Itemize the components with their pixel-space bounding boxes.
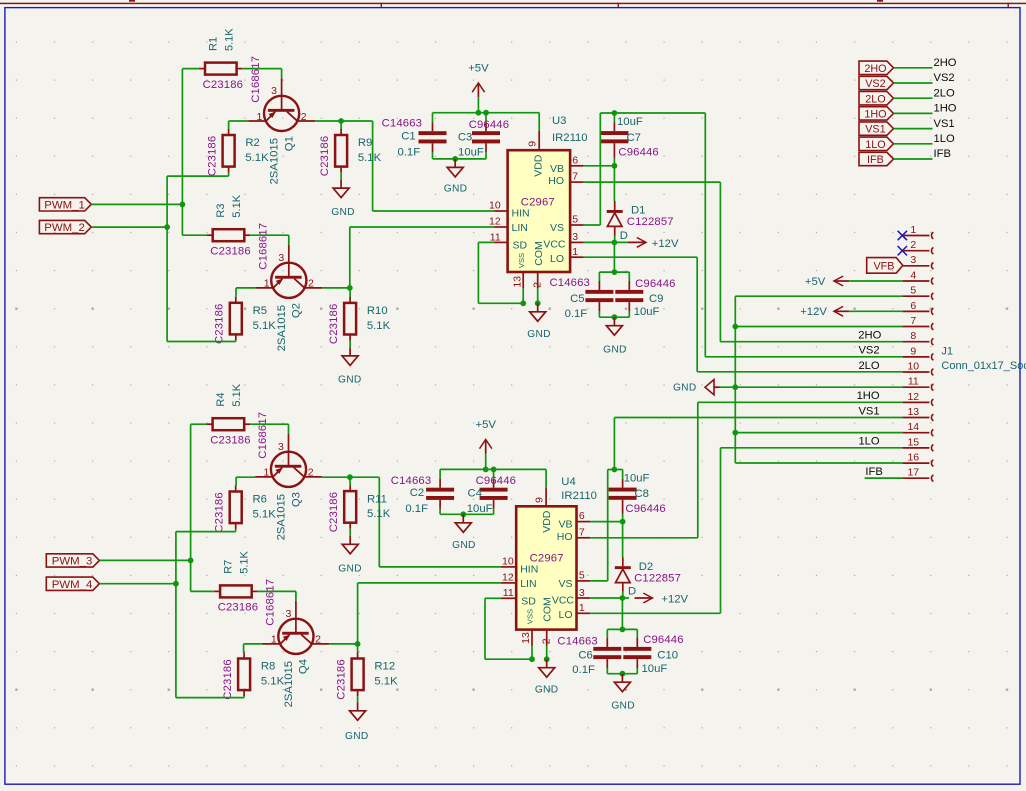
svg-text:R11: R11 xyxy=(367,493,387,505)
capacitor C7 xyxy=(600,131,628,143)
wire xyxy=(167,341,236,343)
svg-text:10uF: 10uF xyxy=(642,663,668,675)
ground xyxy=(527,303,551,340)
pin Q2 base xyxy=(288,245,290,277)
svg-text:1: 1 xyxy=(257,111,263,123)
svg-text:HO: HO xyxy=(548,175,564,187)
resistor R12 xyxy=(352,653,364,697)
svg-text:3: 3 xyxy=(285,608,291,620)
ground xyxy=(338,536,362,575)
svg-text:1LO: 1LO xyxy=(858,436,879,448)
resistor R3 xyxy=(207,229,251,241)
svg-text:D1: D1 xyxy=(631,205,645,217)
svg-text:2: 2 xyxy=(315,634,321,646)
svg-text:C6: C6 xyxy=(578,649,592,661)
wire xyxy=(628,311,630,317)
wire xyxy=(622,514,624,522)
svg-text:VS2: VS2 xyxy=(858,345,879,357)
capacitor C4 xyxy=(480,488,508,500)
svg-text:3: 3 xyxy=(271,85,277,97)
svg-text:COM: COM xyxy=(533,241,545,266)
wire xyxy=(590,580,608,582)
wire xyxy=(545,469,547,487)
junction xyxy=(347,474,353,480)
ground xyxy=(444,159,468,195)
svg-text:0.1F: 0.1F xyxy=(572,664,595,676)
wire C5C9 bottom xyxy=(599,316,629,318)
wire xyxy=(281,69,283,79)
svg-text:Q3: Q3 xyxy=(290,492,302,507)
wire xyxy=(622,470,624,479)
svg-text:1: 1 xyxy=(263,467,269,479)
pin C4 bottom xyxy=(493,500,495,509)
wire xyxy=(705,356,902,358)
svg-text:C96446: C96446 xyxy=(643,634,683,646)
wire xyxy=(182,234,206,236)
svg-text:IFB: IFB xyxy=(867,154,884,166)
svg-text:D2: D2 xyxy=(639,561,653,573)
wire xyxy=(485,597,501,599)
svg-text:11: 11 xyxy=(490,231,501,243)
svg-text:C7: C7 xyxy=(627,132,641,144)
svg-text:PWM_1: PWM_1 xyxy=(44,199,85,211)
power +12V xyxy=(635,593,689,606)
svg-text:5.1K: 5.1K xyxy=(374,676,398,688)
label R10 xyxy=(367,305,391,332)
wire xyxy=(167,175,229,177)
wire xyxy=(440,513,494,515)
wire xyxy=(295,591,297,601)
junction xyxy=(180,202,186,208)
hierarchical label VS2 xyxy=(859,76,894,90)
svg-text:1HO: 1HO xyxy=(934,103,957,115)
svg-text:5.1K: 5.1K xyxy=(223,28,235,51)
svg-text:2SA1015: 2SA1015 xyxy=(276,305,288,351)
svg-text:PWM_4: PWM_4 xyxy=(52,579,93,591)
wire VS rail xyxy=(600,112,705,114)
svg-text:6: 6 xyxy=(572,154,578,166)
junction xyxy=(612,163,618,169)
wire xyxy=(379,566,500,568)
svg-text:LIN: LIN xyxy=(512,222,528,234)
svg-text:IR2110: IR2110 xyxy=(552,132,588,144)
wire xyxy=(735,432,902,434)
ground xyxy=(338,347,362,385)
capacitor C6 xyxy=(593,647,621,659)
wire xyxy=(235,529,237,532)
svg-text:VS1: VS1 xyxy=(865,124,885,136)
wire xyxy=(590,537,698,539)
pin C10 bottom xyxy=(636,659,638,668)
svg-text:HIN: HIN xyxy=(512,207,530,219)
svg-text:4: 4 xyxy=(910,269,916,281)
capacitor C5 xyxy=(585,290,613,302)
label C1 xyxy=(382,117,422,158)
capacitor C9 xyxy=(615,290,643,302)
wire xyxy=(894,67,933,69)
svg-text:C23186: C23186 xyxy=(206,136,218,176)
svg-text:GND: GND xyxy=(535,685,559,696)
wire xyxy=(697,371,902,373)
pin C8 bottom xyxy=(622,500,624,514)
svg-text:0.1F: 0.1F xyxy=(565,308,588,320)
svg-text:VS1: VS1 xyxy=(934,118,955,130)
wire xyxy=(894,112,933,114)
hierarchical label PWM_1 xyxy=(39,198,91,212)
pin C2 top xyxy=(439,479,441,488)
op-amp U3 IR2110 xyxy=(494,115,587,288)
resistor R6 xyxy=(230,486,242,530)
svg-text:C23186: C23186 xyxy=(210,434,250,446)
sheet frame line xyxy=(0,0,1026,7)
svg-text:7: 7 xyxy=(572,171,578,183)
wire xyxy=(258,590,296,592)
wire xyxy=(894,143,933,145)
pin C9 top xyxy=(628,281,630,291)
pin C1 top xyxy=(432,122,434,131)
wire xyxy=(584,241,628,243)
svg-text:U4: U4 xyxy=(561,476,575,488)
wire Q4 to LIN xyxy=(357,583,359,644)
resistor R7 xyxy=(214,585,258,597)
wire xyxy=(894,97,933,99)
capacitor C8 xyxy=(609,488,637,500)
pin C5 bottom xyxy=(598,302,600,311)
wire xyxy=(522,288,524,303)
resistor R9 xyxy=(335,129,347,173)
junction xyxy=(476,110,482,116)
svg-text:Q1: Q1 xyxy=(283,136,295,151)
wire VS1 vertical xyxy=(613,418,615,470)
junction xyxy=(544,656,550,662)
wire VS2 to pin9 xyxy=(704,113,706,357)
svg-text:C5: C5 xyxy=(570,293,584,305)
svg-text:5: 5 xyxy=(572,214,578,226)
pin C7 top xyxy=(613,122,615,131)
pin C2 bottom xyxy=(439,500,441,509)
svg-text:2LO: 2LO xyxy=(865,93,885,105)
pin C1 bottom xyxy=(432,143,434,152)
wire C5C9 top xyxy=(599,271,629,273)
svg-text:GND: GND xyxy=(331,207,355,218)
hierarchical label 2LO xyxy=(859,92,894,106)
power +5V xyxy=(805,276,849,288)
junction xyxy=(188,558,194,564)
svg-text:9: 9 xyxy=(534,497,546,503)
capacitor C10 xyxy=(623,647,651,659)
svg-text:VFB: VFB xyxy=(873,261,894,273)
svg-text:C23186: C23186 xyxy=(335,659,347,699)
pin C6 bottom xyxy=(606,659,608,668)
junction xyxy=(612,269,618,275)
svg-text:R8: R8 xyxy=(261,661,275,673)
wire xyxy=(720,341,902,343)
pin C4 top xyxy=(493,479,495,488)
svg-text:IR2110: IR2110 xyxy=(561,490,597,502)
svg-text:5.1K: 5.1K xyxy=(358,152,382,164)
svg-text:C96446: C96446 xyxy=(469,119,509,131)
pin Q1 base xyxy=(281,78,283,110)
pin numbers U3 xyxy=(489,141,578,288)
svg-text:5.1K: 5.1K xyxy=(253,509,277,521)
resistor R4 xyxy=(207,418,251,430)
wire xyxy=(340,121,342,129)
svg-text:13: 13 xyxy=(520,632,532,644)
svg-text:16: 16 xyxy=(907,451,919,463)
label R1 value xyxy=(208,28,236,51)
svg-text:5.1K: 5.1K xyxy=(253,320,277,332)
wire xyxy=(243,68,282,70)
power GND flag xyxy=(673,380,720,395)
wire xyxy=(493,469,495,478)
wire xyxy=(250,423,288,425)
ground xyxy=(611,674,635,712)
hierarchical label PWM_4 xyxy=(46,577,99,591)
svg-text:C14663: C14663 xyxy=(382,117,422,129)
svg-text:R1: R1 xyxy=(208,37,220,51)
junction xyxy=(612,110,618,116)
wire xyxy=(349,341,351,348)
label R9 xyxy=(358,137,382,164)
wire xyxy=(433,112,540,114)
resistor R8 xyxy=(238,653,250,697)
wire SD loop U4 xyxy=(484,598,486,659)
svg-text:10: 10 xyxy=(907,360,919,372)
wire xyxy=(720,386,903,388)
pin numbers U4 xyxy=(502,497,585,644)
svg-text:3: 3 xyxy=(278,252,284,264)
wire xyxy=(350,476,379,478)
wire xyxy=(622,592,624,598)
wire xyxy=(315,120,373,122)
pin C6 top xyxy=(606,638,608,648)
wire xyxy=(349,529,351,536)
resistor R1 xyxy=(199,63,243,75)
wire C6C10 top xyxy=(607,628,637,630)
junction xyxy=(452,156,458,162)
wire xyxy=(288,235,290,245)
wire xyxy=(613,166,615,201)
wire xyxy=(439,469,441,478)
wire xyxy=(614,236,616,243)
resistor R10 xyxy=(344,297,356,341)
pin C3 top xyxy=(485,122,487,131)
wire xyxy=(322,287,350,289)
wire xyxy=(358,582,501,584)
wire xyxy=(91,203,182,205)
power +5V xyxy=(468,63,489,98)
junction xyxy=(732,430,738,436)
wire xyxy=(478,302,523,304)
label C8 xyxy=(624,473,666,516)
wire xyxy=(228,121,230,129)
transistor Q3 xyxy=(255,441,322,487)
wire xyxy=(735,295,902,297)
label D1 xyxy=(620,205,674,242)
wire VS1 jog xyxy=(608,469,623,471)
wire xyxy=(537,288,539,303)
wire xyxy=(322,476,350,478)
wire xyxy=(628,272,630,281)
svg-text:12: 12 xyxy=(489,216,501,228)
svg-text:C14663: C14663 xyxy=(391,475,431,487)
ground xyxy=(603,317,627,355)
svg-text:C168617: C168617 xyxy=(265,579,277,626)
wire xyxy=(493,509,495,514)
no-connect xyxy=(898,246,907,255)
wire xyxy=(598,272,600,281)
svg-text:1: 1 xyxy=(910,224,916,236)
svg-text:C122857: C122857 xyxy=(627,216,674,228)
wire PWM_4 vertical xyxy=(175,532,177,698)
hierarchical label 1LO xyxy=(859,137,894,151)
svg-text:R2: R2 xyxy=(245,137,259,149)
svg-text:9: 9 xyxy=(527,141,539,147)
svg-text:IFB: IFB xyxy=(934,148,951,160)
svg-text:14: 14 xyxy=(907,421,919,433)
svg-text:VCC: VCC xyxy=(552,595,575,607)
svg-text:C10: C10 xyxy=(657,650,678,662)
svg-text:C122857: C122857 xyxy=(634,573,681,585)
svg-text:C96446: C96446 xyxy=(618,147,658,159)
svg-text:10uF: 10uF xyxy=(634,306,660,318)
svg-text:Q2: Q2 xyxy=(291,303,303,318)
wire xyxy=(606,629,608,638)
wire xyxy=(584,256,698,258)
svg-text:COM: COM xyxy=(541,597,553,622)
pin C5 top xyxy=(598,281,600,291)
svg-text:C23186: C23186 xyxy=(203,79,243,91)
svg-text:C96446: C96446 xyxy=(635,278,675,290)
wire xyxy=(340,173,342,180)
svg-text:D: D xyxy=(628,585,636,597)
svg-text:GND: GND xyxy=(345,731,369,742)
label R2 xyxy=(245,137,269,164)
wire xyxy=(614,417,902,419)
wire xyxy=(849,280,902,282)
label R3 value xyxy=(215,194,243,217)
svg-text:GND: GND xyxy=(338,563,362,574)
svg-text:C3: C3 xyxy=(458,132,472,144)
label C9 xyxy=(634,278,676,318)
wire VS jog down xyxy=(607,470,609,581)
svg-text:1HO: 1HO xyxy=(864,109,886,121)
label R6 xyxy=(253,494,277,521)
svg-text:2LO: 2LO xyxy=(858,360,879,372)
svg-text:2: 2 xyxy=(910,239,916,251)
label C7 xyxy=(617,116,659,159)
svg-text:2: 2 xyxy=(532,282,544,288)
label Q1 2SA1015 xyxy=(269,136,296,184)
svg-text:R6: R6 xyxy=(253,494,267,506)
wire xyxy=(865,477,903,479)
junction xyxy=(483,110,489,116)
pin U3 VDD 9 xyxy=(538,131,540,150)
wire xyxy=(243,644,245,653)
svg-text:10uF: 10uF xyxy=(624,473,650,485)
svg-text:1LO: 1LO xyxy=(934,133,955,145)
svg-text:C9: C9 xyxy=(649,293,663,305)
junction xyxy=(620,519,626,525)
wire xyxy=(735,326,902,328)
svg-text:6: 6 xyxy=(910,300,916,312)
junction xyxy=(529,656,535,662)
svg-text:1: 1 xyxy=(271,634,277,646)
junction xyxy=(483,467,489,473)
svg-text:C8: C8 xyxy=(635,488,649,500)
wire xyxy=(598,311,600,317)
svg-text:SD: SD xyxy=(513,240,528,252)
wire xyxy=(250,234,288,236)
svg-text:LO: LO xyxy=(550,253,564,265)
svg-text:VCC: VCC xyxy=(543,239,566,251)
wire xyxy=(329,643,357,645)
label R7 value xyxy=(223,551,251,574)
pin C10 top xyxy=(636,638,638,648)
wire xyxy=(613,242,615,272)
label Q2 2SA1015 xyxy=(276,303,303,351)
wire Q2 to LIN xyxy=(349,227,351,288)
wire xyxy=(349,477,351,485)
transistor Q2 xyxy=(255,252,322,298)
svg-text:C168617: C168617 xyxy=(257,412,269,459)
junction xyxy=(620,627,626,633)
wire xyxy=(735,462,902,464)
svg-text:5.1K: 5.1K xyxy=(245,152,269,164)
hierarchical label VS1 xyxy=(859,122,894,136)
wire xyxy=(584,224,601,226)
svg-text:2SA1015: 2SA1015 xyxy=(269,138,281,184)
wire xyxy=(236,476,255,478)
transistor Q1 xyxy=(248,85,315,131)
wire xyxy=(538,113,540,131)
svg-text:2: 2 xyxy=(541,638,553,644)
resistor R2 xyxy=(223,129,235,173)
svg-text:+12V: +12V xyxy=(661,594,688,606)
svg-text:GND: GND xyxy=(452,540,476,551)
wire xyxy=(584,165,615,167)
svg-text:R10: R10 xyxy=(367,305,388,317)
svg-text:C23186: C23186 xyxy=(214,304,226,344)
svg-text:IFB: IFB xyxy=(865,466,882,478)
svg-text:+5V: +5V xyxy=(468,63,489,75)
svg-text:C168617: C168617 xyxy=(250,56,262,103)
svg-text:3: 3 xyxy=(579,587,585,599)
wire PWM_1 vertical xyxy=(181,69,183,236)
wire GND bus xyxy=(734,296,736,463)
svg-text:0.1F: 0.1F xyxy=(405,503,428,515)
svg-text:LIN: LIN xyxy=(520,578,536,590)
pin Q3 base xyxy=(288,434,290,466)
wire 1LO vertical xyxy=(720,448,722,614)
wire xyxy=(176,697,244,699)
svg-text:11: 11 xyxy=(503,587,514,599)
wire xyxy=(636,668,638,674)
svg-text:15: 15 xyxy=(907,436,919,448)
wire xyxy=(244,643,263,645)
wire xyxy=(176,531,236,533)
diode D2 xyxy=(615,557,631,592)
svg-text:17: 17 xyxy=(907,467,919,479)
svg-text:Conn_01x17_Socket: Conn_01x17_Socket xyxy=(941,360,1026,372)
wire xyxy=(99,559,190,561)
svg-text:C2: C2 xyxy=(410,487,424,499)
junction xyxy=(620,595,626,601)
svg-text:2LO: 2LO xyxy=(934,87,955,99)
svg-text:10uF: 10uF xyxy=(467,503,493,515)
wire xyxy=(584,181,721,183)
pin C9 bottom xyxy=(628,302,630,311)
